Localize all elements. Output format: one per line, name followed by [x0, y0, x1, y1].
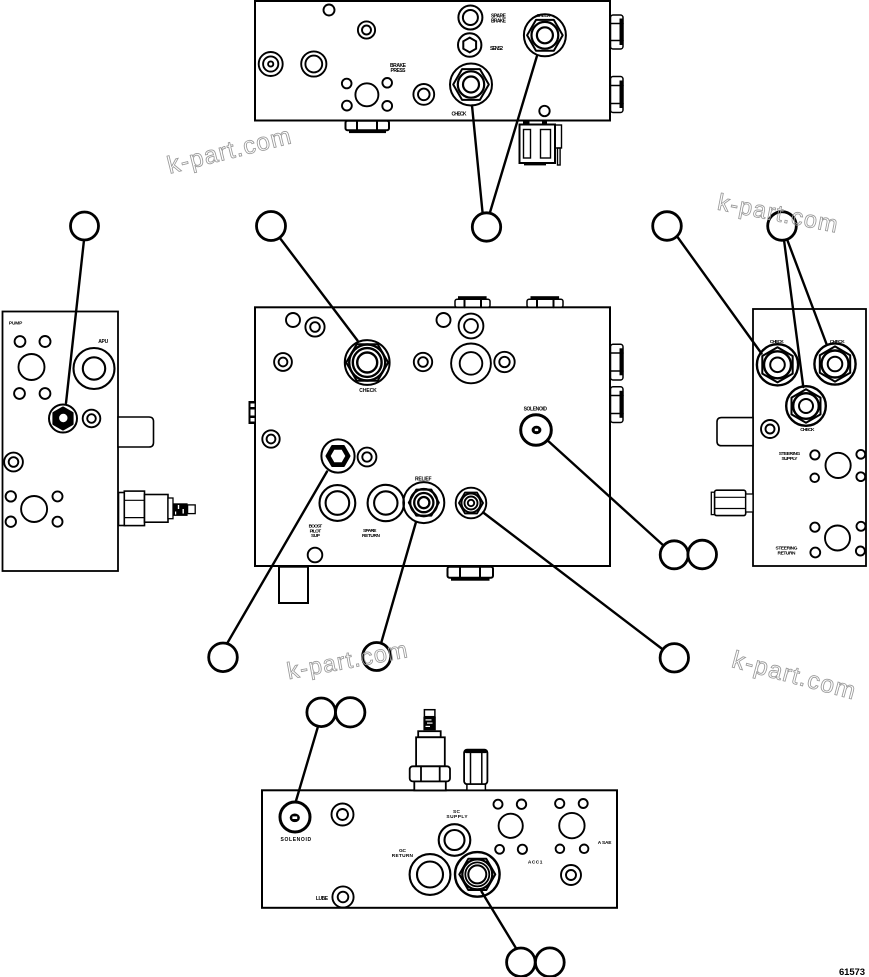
- port BOOST PILOT SUP: [320, 485, 356, 521]
- svg-text:PUMP: PUMP: [9, 321, 23, 327]
- bolt circle group 1: [494, 800, 528, 854]
- small circle near solenoid: [539, 106, 549, 116]
- port ACC hex (with leader): [455, 852, 500, 897]
- leader line: top balloon to CHECK port lower: [472, 106, 483, 214]
- right block left tab: [717, 418, 753, 446]
- svg-text:RETURN: RETURN: [362, 533, 381, 539]
- small circle port top: [324, 5, 335, 16]
- top block right side fitting lower: [611, 77, 624, 113]
- small bolt circle: [14, 388, 25, 399]
- svg-text:k-part.com: k-part.com: [165, 122, 295, 179]
- right block body: [753, 309, 866, 566]
- bolt circle group lower: [810, 522, 865, 558]
- port small double circle: [761, 420, 779, 438]
- port double circle: [459, 314, 484, 339]
- leader line: solenoid port to twin balloons: [548, 440, 664, 545]
- balloon (bottom left of center): [209, 643, 238, 672]
- center block bottom-left leg: [279, 567, 308, 603]
- balloon (upper mid-left): [257, 212, 286, 241]
- relief valve on bottom block: [410, 710, 450, 791]
- leader line: balloon to center CHECK port: [279, 237, 357, 340]
- balloon (upper right 1): [653, 212, 682, 241]
- small circle port upper right area: [437, 313, 451, 327]
- leader line: left balloon to pump hex port: [66, 240, 84, 403]
- port hex black (boost pilot, with leader): [321, 439, 354, 472]
- label SC SUPPLY: [446, 809, 468, 820]
- port SENS2: [458, 33, 481, 56]
- balloon (bottom right of center): [660, 644, 688, 672]
- bolt circle group lower: [6, 491, 63, 527]
- twin balloons (above bottom block): [307, 698, 365, 727]
- top block bottom mounting bracket: [346, 121, 390, 133]
- left block body: [3, 312, 119, 572]
- svg-text:RETURN: RETURN: [392, 853, 414, 859]
- port double circle: [332, 804, 354, 826]
- top block body: [255, 1, 610, 121]
- port double circle mid-left: [301, 51, 326, 76]
- svg-text:SUPPLY: SUPPLY: [446, 814, 468, 820]
- bolt circle group upper: [810, 450, 865, 482]
- svg-text:SOLENOID: SOLENOID: [281, 837, 312, 843]
- port CHECK hex (top, with leader): [524, 14, 566, 56]
- port double circle right of bolt circle: [413, 84, 434, 105]
- port big circle: [19, 354, 45, 380]
- label STEERING RETURN: [776, 546, 798, 557]
- svg-text:CHECK: CHECK: [452, 111, 467, 117]
- center block body: [255, 307, 610, 566]
- port big double circle: [451, 344, 491, 384]
- port CHECK right (hex): [814, 343, 855, 384]
- twin balloons (right of center block): [660, 540, 716, 569]
- svg-text:RELIEF: RELIEF: [415, 477, 432, 483]
- leader line: ACC port to bottom twin balloons: [482, 892, 517, 950]
- hex plug on bottom block: [464, 750, 487, 791]
- leader line: balloon to right-block right CHECK: [787, 239, 827, 344]
- port double circle: [305, 317, 324, 336]
- svg-text:APU: APU: [98, 339, 108, 345]
- port SPARE BRAKE: [458, 6, 482, 30]
- solenoid on top block: [520, 121, 562, 165]
- svg-text:A SAE: A SAE: [598, 840, 613, 846]
- port double circle lower left: [4, 453, 23, 472]
- svg-text:CHECK: CHECK: [537, 13, 552, 18]
- svg-text:61573: 61573: [839, 967, 865, 977]
- label BOOST PILOT SUP: [309, 524, 323, 540]
- label BRAKE PRESS: [390, 63, 407, 74]
- port small hex with rings (with leader): [456, 488, 487, 519]
- twin balloons (bottom): [507, 948, 565, 977]
- leader line: twin balloons to bottom solenoid port: [296, 727, 318, 802]
- label GC RETURN: [392, 848, 414, 859]
- leader line: balloon to right-block left CHECK: [677, 236, 762, 354]
- label SPARE BRAKE: [491, 14, 507, 25]
- small circle port: [286, 313, 300, 327]
- svg-text:k-part.com: k-part.com: [729, 646, 859, 705]
- svg-text:SPARE: SPARE: [363, 528, 377, 534]
- port triple circle left: [259, 52, 283, 76]
- port LUBE double circle: [332, 886, 353, 907]
- svg-text:LUBE: LUBE: [316, 896, 329, 902]
- balloon (top center): [472, 213, 500, 241]
- balloon (below relief): [363, 643, 391, 671]
- label STEERING SUPPLY: [779, 451, 801, 462]
- center block left side tab fitting (black): [249, 401, 257, 424]
- port CHECK middle (hex): [786, 386, 826, 426]
- port CHECK left (hex): [757, 344, 798, 385]
- svg-text:k-part.com: k-part.com: [285, 636, 411, 684]
- port double circle right: [414, 353, 432, 371]
- center block right side fitting upper: [611, 344, 624, 380]
- leader line: relief port to balloon: [381, 522, 416, 644]
- top block right side fitting upper: [611, 15, 624, 49]
- svg-text:SUP: SUP: [311, 533, 321, 539]
- port SOLENOID (bold circle with leader): [280, 802, 310, 832]
- label SPARE RETURN: [362, 528, 381, 539]
- left block right tab: [118, 417, 154, 447]
- leader line: small hex port to balloon: [483, 513, 663, 650]
- port CHECK center (big hex): [345, 340, 390, 385]
- small bolt circle: [40, 336, 51, 347]
- port double circle left: [274, 353, 292, 371]
- small bolt circle: [15, 336, 26, 347]
- port double circle right of hex: [83, 410, 101, 428]
- bottom block body: [262, 790, 617, 908]
- bolt circle group on top block: [342, 78, 392, 111]
- svg-text:CHECK: CHECK: [359, 388, 377, 394]
- port RELIEF (hex with rings): [403, 482, 444, 523]
- leader line: boost hex port to lower-left balloon: [227, 472, 328, 645]
- port hex black (with leader to top-left balloon): [49, 405, 77, 433]
- balloon (left): [71, 212, 99, 240]
- port CHECK hex (lower): [450, 64, 492, 106]
- svg-text:PRESS: PRESS: [391, 68, 407, 74]
- svg-text:BRAKE: BRAKE: [491, 19, 507, 25]
- port double circle lower left: [262, 430, 279, 447]
- port double circle upper mid: [358, 21, 375, 38]
- center block right side fitting lower: [611, 387, 624, 423]
- center block top fitting right: [527, 296, 563, 307]
- right block left hex fitting: [711, 490, 753, 515]
- svg-text:SUPPLY: SUPPLY: [782, 456, 799, 462]
- port small double circle: [494, 352, 514, 372]
- port small double circle right of hex: [358, 448, 377, 467]
- port SPARE RETURN: [368, 485, 404, 521]
- port APU double circle: [74, 348, 115, 389]
- port double circle bottom right: [561, 865, 581, 885]
- balloon (upper right 2): [768, 212, 797, 241]
- svg-text:SENS2: SENS2: [490, 46, 503, 52]
- center block top fitting left: [455, 296, 490, 307]
- port GC RETURN: [410, 854, 451, 895]
- port SC SUPPLY: [439, 824, 471, 856]
- svg-text:ACC1: ACC1: [528, 859, 543, 865]
- center block bottom mounting bracket: [448, 567, 494, 581]
- bolt circle group 2: [555, 799, 588, 853]
- svg-text:CHECK: CHECK: [800, 427, 815, 433]
- svg-text:SOLENOID: SOLENOID: [524, 406, 548, 412]
- leader line: top balloon to CHECK port upper: [490, 57, 537, 214]
- small circle port bottom: [308, 548, 323, 563]
- leader line: balloon to right-block middle CHECK: [784, 240, 803, 387]
- small bolt circle: [40, 388, 51, 399]
- port SOLENOID (bold circle): [521, 415, 552, 446]
- svg-text:RETURN: RETURN: [778, 550, 797, 556]
- left block side valve fitting: [119, 491, 196, 525]
